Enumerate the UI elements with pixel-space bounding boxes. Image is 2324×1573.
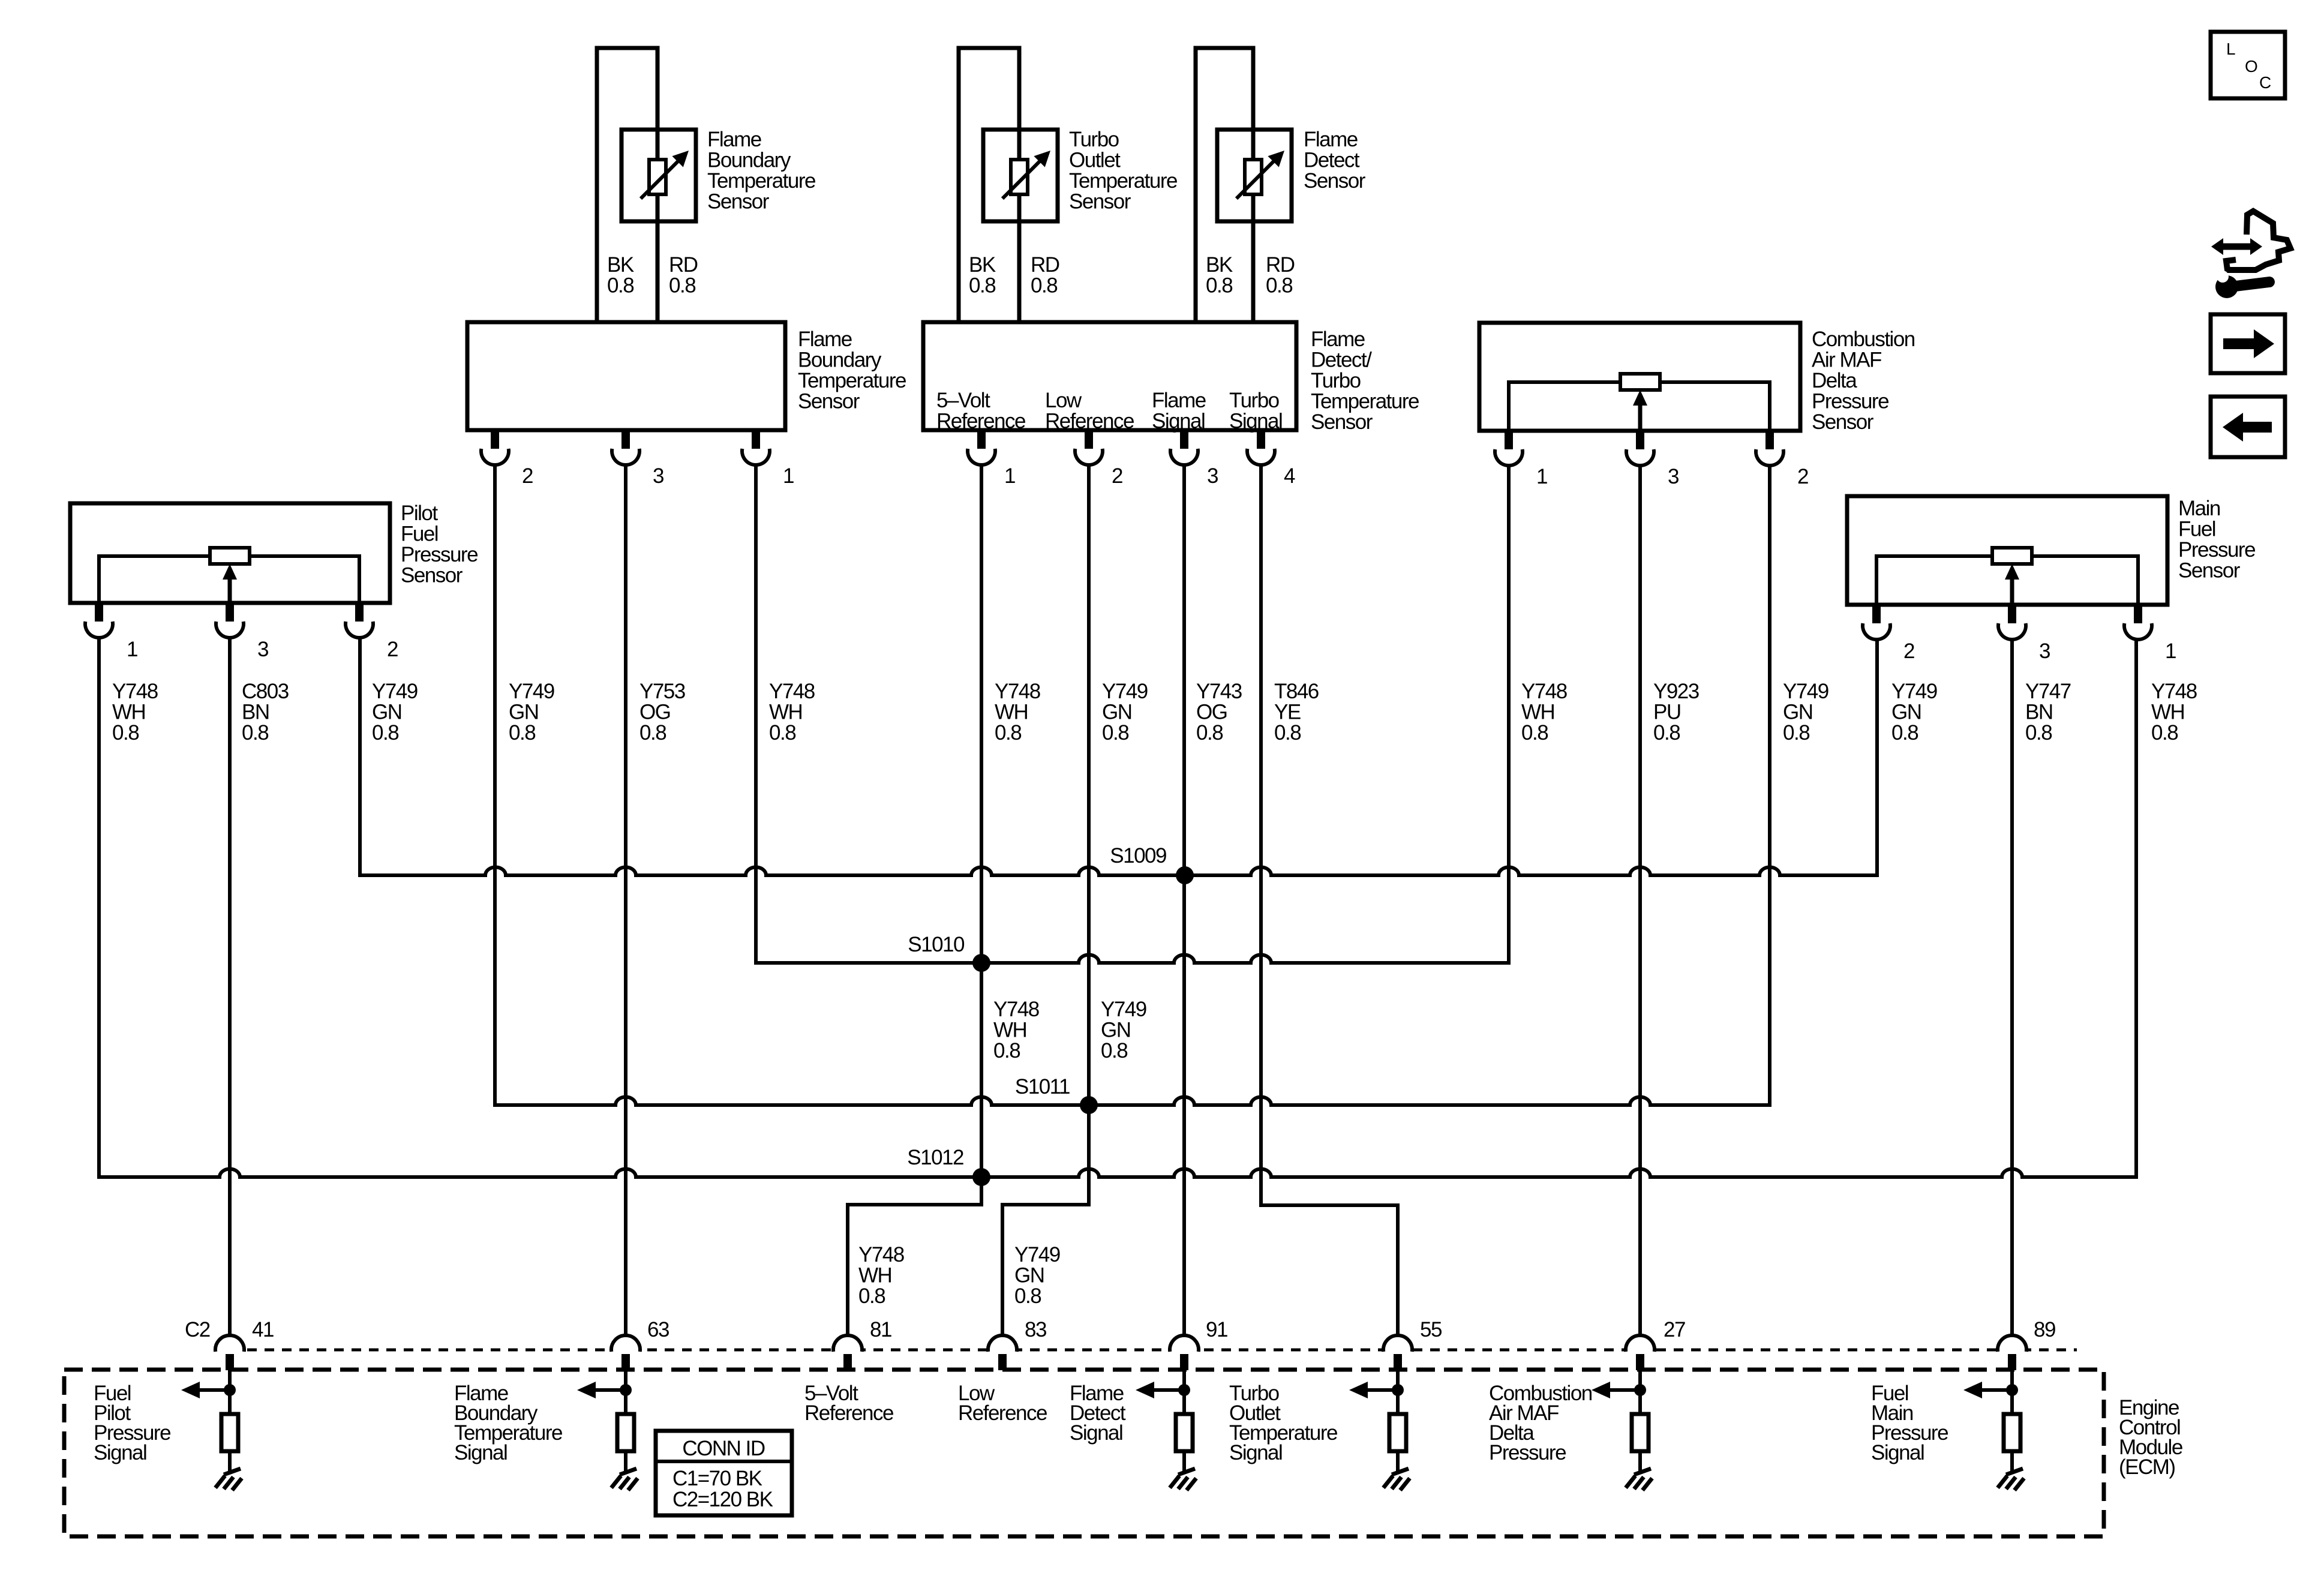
svg-text:55: 55: [1420, 1318, 1442, 1341]
svg-text:BK0.8: BK0.8: [969, 253, 996, 298]
svg-text:89: 89: [2034, 1318, 2055, 1341]
svg-text:S1010: S1010: [908, 933, 965, 956]
svg-text:RD0.8: RD0.8: [1266, 253, 1295, 298]
svg-text:4: 4: [1284, 464, 1295, 488]
svg-text:FlameSignal: FlameSignal: [1152, 389, 1206, 433]
svg-text:BK0.8: BK0.8: [607, 253, 634, 298]
svg-text:2: 2: [1112, 464, 1122, 488]
svg-text:1: 1: [127, 638, 137, 661]
svg-text:1: 1: [1004, 464, 1015, 488]
svg-text:S1009: S1009: [1110, 844, 1166, 867]
svg-text:L: L: [2226, 40, 2235, 58]
svg-text:2: 2: [1903, 640, 1914, 663]
svg-text:27: 27: [1664, 1318, 1685, 1341]
svg-text:3: 3: [653, 464, 663, 488]
svg-text:3: 3: [2039, 640, 2050, 663]
svg-text:C2: C2: [185, 1318, 210, 1341]
svg-text:83: 83: [1025, 1318, 1046, 1341]
svg-text:O: O: [2245, 57, 2257, 76]
svg-text:BK0.8: BK0.8: [1206, 253, 1233, 298]
svg-text:3: 3: [257, 638, 268, 661]
svg-text:1: 1: [1536, 465, 1547, 488]
svg-text:1: 1: [2165, 640, 2176, 663]
svg-text:FlameDetectSensor: FlameDetectSensor: [1304, 128, 1366, 193]
svg-text:S1011: S1011: [1015, 1075, 1070, 1098]
svg-text:RD0.8: RD0.8: [1031, 253, 1059, 298]
svg-text:1: 1: [783, 464, 794, 488]
svg-text:2: 2: [387, 638, 398, 661]
svg-text:91: 91: [1206, 1318, 1227, 1341]
svg-text:81: 81: [870, 1318, 891, 1341]
svg-text:EngineControlModule(ECM): EngineControlModule(ECM): [2119, 1396, 2182, 1479]
svg-text:TurboSignal: TurboSignal: [1229, 389, 1282, 433]
svg-text:C: C: [2259, 73, 2271, 92]
svg-text:2: 2: [1797, 465, 1808, 488]
svg-text:C2=120 BK: C2=120 BK: [672, 1488, 773, 1511]
svg-text:CONN ID: CONN ID: [682, 1437, 765, 1460]
svg-text:3: 3: [1207, 464, 1218, 488]
svg-text:C1=70 BK: C1=70 BK: [672, 1467, 762, 1490]
svg-text:FlameDetectSignal: FlameDetectSignal: [1070, 1382, 1126, 1445]
svg-text:3: 3: [1668, 465, 1679, 488]
svg-text:63: 63: [647, 1318, 669, 1341]
svg-text:S1012: S1012: [907, 1146, 963, 1169]
svg-text:RD0.8: RD0.8: [669, 253, 698, 298]
svg-text:41: 41: [252, 1318, 274, 1341]
svg-text:2: 2: [522, 464, 533, 488]
